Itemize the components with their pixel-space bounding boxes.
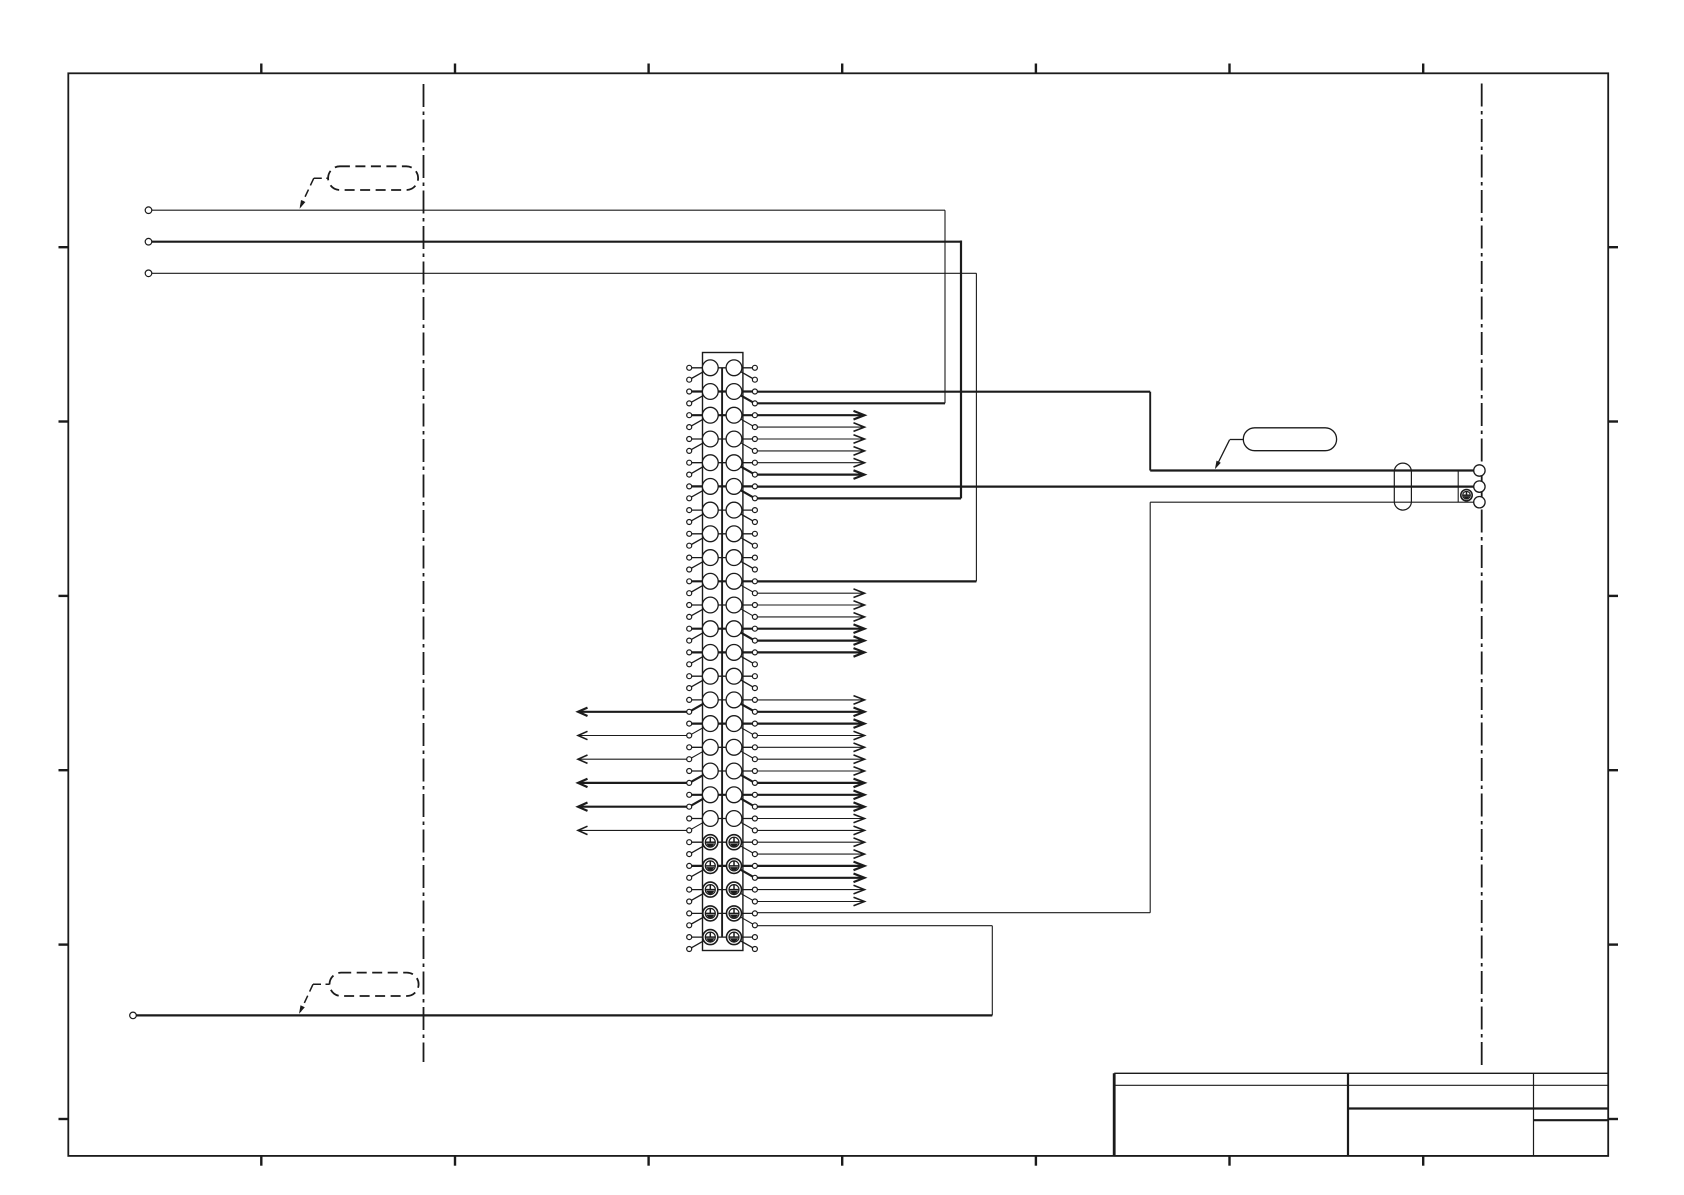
centerline (panel boundary, left) [423,84,425,1062]
wire: X1:16 lower contact outgoing arrow (left) [578,731,687,739]
terminal X1:3 [687,407,758,429]
wire: X1:19 lower contact outgoing arrow [757,802,864,811]
wire: X1:15 lower contact outgoing arrow [757,708,864,717]
wire: X1:17 lower contact outgoing arrow (left) [578,755,687,763]
wire: X1:20 lower contact outgoing arrow (left) [578,826,687,834]
wire: X1:21 upper contact outgoing arrow [757,838,864,847]
terminal X1:1 [687,360,758,382]
wire: X1:11 lower contact outgoing arrow [757,613,864,622]
callout balloon (dashed) for wire W1, top [300,166,419,208]
wire W5: X1 row2 upper contact to cable connector top conductor [757,392,1473,471]
terminal X1:23 [687,882,758,904]
terminal X1:21 [687,835,758,857]
wire: X1:4 lower contact outgoing arrow [757,447,864,456]
terminal X1:22 [687,858,758,880]
terminal X1:15 [687,692,758,714]
wire: X1:17 upper contact outgoing arrow [757,743,864,752]
wire: X1:15 lower contact outgoing arrow (left) [578,708,687,716]
terminal X1:24 [687,906,758,928]
wire W2: pin2 to X1 row6 lower contact [152,241,961,499]
PE bonding link between conductors [1457,471,1459,503]
wire: X1:20 upper contact outgoing arrow [757,814,864,823]
terminal X1:11 [687,597,758,619]
protective earth symbol at connector [1461,490,1472,501]
terminal X1:2 [687,384,758,406]
wire: X1:12 upper contact outgoing arrow [757,624,864,633]
wire: X1:16 upper contact outgoing arrow [757,719,864,728]
callout balloon (dashed) for wire W4, bottom [299,973,419,1014]
wire: X1:23 upper contact outgoing arrow [757,885,864,894]
terminal strip X1 body [703,353,743,951]
terminal X1:13 [687,645,758,667]
terminal pin 4 (field wire stub, bottom) [130,1012,137,1019]
wire: X1:4 upper contact outgoing arrow [757,435,864,444]
terminal X1:17 [687,739,758,761]
terminal pin 3 (field wire stub) [145,270,152,277]
connector contact A (top) [1474,465,1485,476]
wire: X1:18 lower contact outgoing arrow [757,779,864,788]
wire: X1:15 upper contact outgoing arrow [757,696,864,705]
wire: X1:11 upper contact outgoing arrow [757,601,864,610]
terminal strip X1 internal bus [721,368,723,937]
wire W3: pin3 to X1 row10 upper contact [152,273,977,581]
wire: X1:10 lower contact outgoing arrow [757,589,864,598]
wire: X1:3 lower contact outgoing arrow [757,423,864,432]
terminal X1:12 [687,621,758,643]
wire: X1:13 upper contact outgoing arrow [757,648,864,657]
wire: X1:17 lower contact outgoing arrow [757,755,864,764]
terminal X1:10 [687,573,758,595]
connector contact C (bottom) [1474,497,1485,508]
wire W1: pin1 to X1 row2 lower contact [152,210,945,403]
terminal X1:8 [687,526,758,548]
wire: X1:16 lower contact outgoing arrow [757,731,864,740]
wire: X1:5 lower contact outgoing arrow [757,470,864,479]
wire: X1:3 upper contact outgoing arrow [757,411,864,420]
terminal X1:20 [687,811,758,833]
terminal X1:16 [687,716,758,738]
terminal X1:5 [687,455,758,477]
wire: X1:22 upper contact outgoing arrow [757,862,864,871]
terminal X1:19 [687,787,758,809]
title block [1114,1073,1608,1156]
wire W7: X1 row24 upper contact to cable connector bottom conductor [757,502,1473,913]
wire: X1:12 lower contact outgoing arrow [757,636,864,645]
terminal X1:6 [687,479,758,501]
wire: X1:18 upper contact outgoing arrow [757,767,864,776]
terminal X1:18 [687,763,758,785]
wire: X1:20 lower contact outgoing arrow [757,826,864,835]
wire: X1:5 upper contact outgoing arrow [757,458,864,467]
terminal pin 1 (field wire stub) [145,207,152,214]
wire: X1:18 lower contact outgoing arrow (left) [578,779,687,787]
connector contact B (middle) [1474,481,1485,492]
terminal X1:25 [687,930,758,952]
terminal pin 2 (field wire stub) [145,238,152,245]
cable clamp / strain relief [1394,463,1411,510]
callout balloon (solid) for cable W5, right [1215,428,1337,470]
terminal X1:4 [687,431,758,453]
wire W4: bottom pin4 to X1 row24 lower contact [136,926,992,1016]
terminal X1:7 [687,502,758,524]
wire: X1:19 upper contact outgoing arrow [757,791,864,800]
wire: X1:21 lower contact outgoing arrow [757,850,864,859]
wire: X1:19 lower contact outgoing arrow (left) [578,803,687,811]
centerline (panel boundary, right) [1481,84,1483,1066]
wire: X1:23 lower contact outgoing arrow [757,897,864,906]
wire: X1:22 lower contact outgoing arrow [757,874,864,883]
wire W6: X1 row6 upper contact to cable connector middle conductor [757,486,1473,488]
terminal X1:9 [687,550,758,572]
terminal X1:14 [687,668,758,690]
